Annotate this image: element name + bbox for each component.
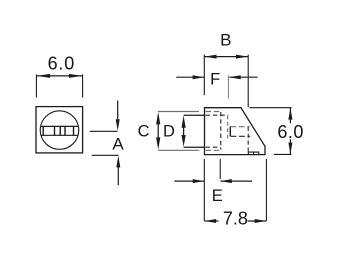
top view lens circle [40, 111, 79, 150]
dim C: down arrowhead [156, 137, 160, 149]
hidden lead top edge (outside body) [158, 111, 199, 113]
dim 6.0 right: dimension line [289, 108, 291, 154]
dim E: right extension line [219, 159, 221, 179]
dim 6.0 top: right arrowhead [69, 74, 82, 78]
svg-text:6.0: 6.0 [48, 54, 75, 74]
hidden lead end / lens right edge (dashed vertical) [220, 112, 222, 150]
dim B: dimension line [204, 56, 248, 58]
hidden lens bottom edge (inside body, dashed) [205, 146, 220, 148]
dim 7.8: right extension line [265, 159, 267, 221]
dim 6.0 right: up arrowhead [288, 108, 292, 120]
dim F: left arrow line [176, 76, 204, 78]
dim B: right extension line [247, 55, 249, 108]
dim 6.0 top: dimension line [37, 75, 83, 77]
dim F: right extension line [227, 75, 229, 98]
band divider 2 [54, 126, 56, 136]
dim C: double arrow shaft [157, 120, 159, 142]
dim 7.8: right arrowhead (pointing right) [255, 219, 267, 223]
band divider 3 [59, 126, 61, 136]
top view package body (square outline) [36, 107, 83, 153]
dim B: left arrowhead [205, 55, 217, 59]
dim A: lower leader line [92, 154, 119, 156]
dim 6.0 top: left arrowhead [37, 74, 50, 78]
dim 6.0 right: bottom extension line [274, 153, 292, 155]
hidden cathode lead vertical (dashed) [247, 127, 249, 152]
dim A: down arrowhead [116, 119, 120, 131]
svg-text:F: F [210, 70, 220, 88]
dim F: left arrowhead (pointing right) [193, 75, 205, 79]
svg-text:D: D [163, 123, 175, 141]
dim D: up arrowhead [182, 116, 186, 128]
dim E: right arrow line [220, 180, 252, 182]
hidden lead top edge (inside body, dashed) [206, 111, 220, 113]
chip bottom edge (dashed) [231, 135, 251, 137]
dim 6.0 right: top extension line [249, 107, 291, 109]
cathode mark box divider [253, 152, 255, 154]
dim 6.0 top: right extension line [82, 74, 84, 97]
dim D: double arrow shaft [183, 124, 185, 139]
dim A: up arrow shaft [117, 164, 119, 185]
chip top edge (dashed) [231, 126, 250, 128]
dim D: down arrowhead [182, 135, 186, 147]
dim B: right arrowhead [236, 55, 248, 59]
dim 7.8: dimension line right segment [248, 220, 267, 222]
svg-text:A: A [112, 134, 124, 153]
dim 6.0 right: label background [277, 123, 305, 139]
dim E: left arrow line [174, 180, 204, 182]
dim F: right arrow line [229, 76, 257, 78]
dim D: top leader line [184, 114, 205, 116]
chip left edge bar [229, 126, 231, 136]
dim 7.8: dimension line left segment [205, 220, 219, 222]
band divider 5 [73, 126, 75, 136]
dim C: up arrowhead [156, 112, 160, 124]
svg-text:E: E [212, 187, 223, 205]
svg-text:C: C [138, 122, 150, 140]
dim D: bottom leader line [184, 146, 205, 148]
svg-text:6.0: 6.0 [277, 122, 304, 142]
dim A: upper leader line [90, 130, 118, 132]
top view chip band bottom edge [41, 134, 79, 136]
svg-text:B: B [220, 30, 231, 49]
hidden lead bottom edge (outside body) [158, 149, 199, 151]
cathode mark box on bottom edge [248, 152, 258, 154]
dim A: down arrow shaft [117, 101, 119, 123]
dim F: right arrowhead (pointing left) [229, 75, 241, 79]
dim 6.0 right: down arrowhead [288, 143, 292, 155]
hidden lead bottom edge (inside body, dashed) [206, 149, 220, 151]
dim E: right arrowhead (pointing left) [220, 179, 232, 183]
band divider 1 [42, 126, 44, 136]
hidden lens top edge (inside body, dashed) [205, 114, 228, 116]
dim E: left extension line (shared with 7.8) [203, 159, 205, 221]
dim 7.8: left arrowhead (pointing left) [205, 219, 217, 223]
svg-text:7.8: 7.8 [223, 209, 248, 229]
side view body outline with chamfer [205, 108, 266, 155]
top view chip band top edge [41, 125, 79, 127]
band divider 4 [64, 126, 66, 136]
dim 6.0 top: left extension line [35, 74, 37, 97]
dim E: left arrowhead (pointing right) [193, 179, 205, 183]
dim B: left extension line [203, 55, 205, 96]
hidden reflector edge (gray dashed vertical) [227, 116, 229, 141]
dim A: up arrowhead [116, 156, 120, 168]
